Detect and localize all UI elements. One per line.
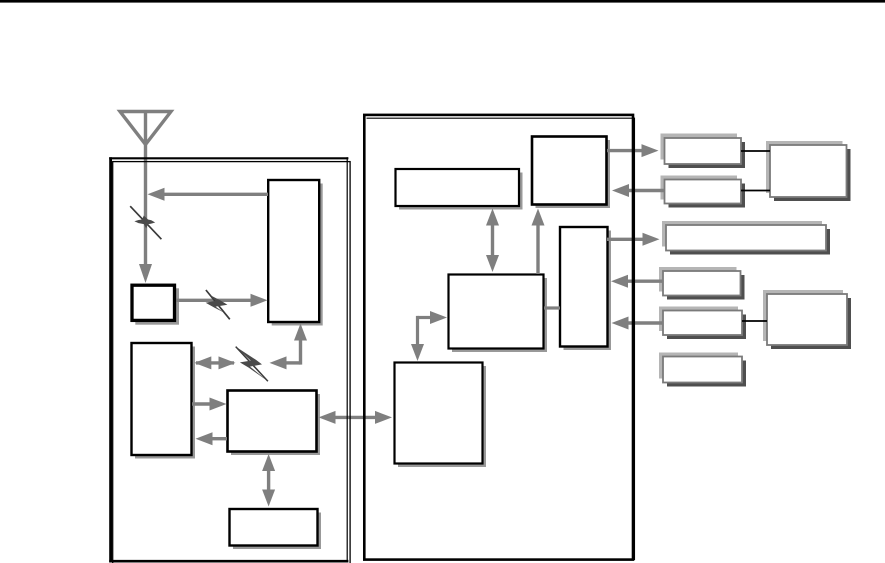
block TR: codec (top right box middle container)	[532, 137, 610, 209]
wire: TR to R1 (arrow right)	[607, 144, 659, 157]
block S1: RF front end (small box)	[132, 285, 179, 324]
block T2: IF section (left tall box)	[132, 343, 196, 459]
peripheral RB1 (big right box top)	[766, 141, 851, 201]
peripheral R2	[661, 176, 746, 208]
block T1: synthesizer (tall box in left container)	[268, 180, 323, 326]
wire: S1 to T1 (arrow right)	[177, 294, 268, 307]
peripheral R5	[659, 307, 746, 340]
peripheral R4	[659, 267, 745, 300]
wire: T2 to C1 (arrow right)	[192, 398, 227, 411]
wire: R4 to TB (arrow left)	[611, 275, 663, 288]
container: radio unit (left, double border)	[109, 157, 350, 563]
wire: C2-TB plain link	[544, 306, 560, 309]
wire: W1-C2 vertical double arrow	[486, 209, 499, 273]
peripheral R6	[659, 353, 746, 387]
block B1: control (bottom box left container)	[230, 509, 322, 549]
wire: TB to R3 (arrow right)	[607, 233, 660, 246]
wire: C2 to TR (arrow up)	[532, 209, 545, 275]
wire: C2 elbow to L1 (arrow right into C2, arrow down into L1)	[411, 311, 447, 361]
connector R5-RB2	[742, 320, 767, 322]
connector R1-RB1	[741, 150, 770, 152]
wire: C1-B1 vertical double arrow	[262, 454, 275, 507]
wire: R2 to TR (arrow left)	[612, 184, 664, 197]
connector R2-RB1	[741, 190, 770, 192]
RF link bolt 2 (on S1-T1 wire)	[206, 290, 230, 319]
wire: antenna feed arrowhead into S1	[139, 264, 152, 283]
peripheral R1 (3-layer box)	[661, 134, 746, 169]
block C1: modem (center box left container)	[228, 391, 321, 456]
antenna	[120, 112, 171, 267]
wire: R5 to TB (arrow left)	[612, 317, 664, 330]
wire: C1 to T2 (arrow left)	[196, 432, 228, 445]
wire: T2 link segment (double arrow)	[194, 356, 235, 369]
block L1: memory (lower box middle container)	[395, 363, 487, 468]
container: baseband unit (middle, double border)	[364, 115, 634, 560]
wire: T1 to antenna line (arrow left)	[148, 188, 269, 201]
peripheral R3 (wide)	[662, 221, 830, 255]
block TB: interface (tall box middle container)	[560, 227, 611, 350]
wire: C1-L1 horizontal double arrow (crosses containers)	[319, 411, 393, 424]
top rule	[0, 0, 885, 3]
block W1: signal processor (wide box middle container)	[396, 169, 523, 210]
block C2: CPU (center box middle container)	[449, 275, 548, 353]
peripheral RB2 (big right box bottom)	[763, 290, 851, 349]
RF link bolt 3 (between T2 and T1 elbow)	[236, 347, 268, 382]
RF link bolt 1 (on antenna wire)	[130, 206, 161, 239]
wire: elbow to T1 bottom (arrow left + arrow up)	[270, 324, 308, 370]
